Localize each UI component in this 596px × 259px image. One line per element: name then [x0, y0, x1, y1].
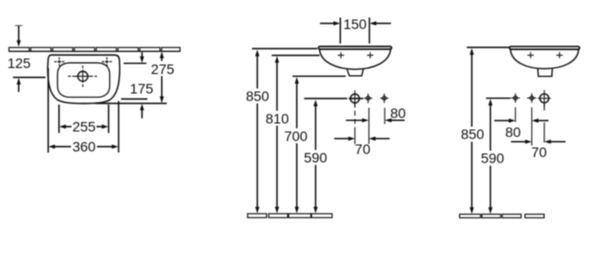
svg-text:125: 125 [7, 55, 31, 71]
svg-text:80: 80 [390, 105, 406, 121]
svg-text:150: 150 [343, 16, 367, 32]
svg-text:80: 80 [505, 124, 521, 140]
svg-text:850: 850 [246, 88, 270, 104]
svg-text:700: 700 [284, 128, 308, 144]
svg-text:275: 275 [151, 61, 175, 77]
svg-text:810: 810 [266, 110, 290, 126]
svg-text:850: 850 [461, 126, 485, 142]
svg-text:360: 360 [72, 139, 96, 155]
svg-text:590: 590 [481, 150, 505, 166]
svg-text:255: 255 [72, 119, 96, 135]
svg-text:590: 590 [304, 150, 328, 166]
svg-text:70: 70 [531, 144, 547, 160]
svg-text:175: 175 [130, 80, 154, 96]
svg-text:70: 70 [355, 141, 371, 157]
